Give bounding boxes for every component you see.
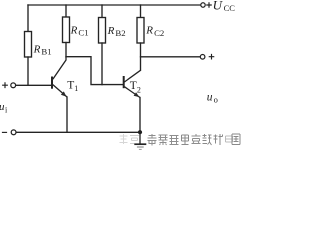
transistor T2 [124, 70, 141, 97]
label output plus [209, 54, 215, 60]
label RC1 [70, 24, 89, 37]
svg-text:o: o [214, 95, 218, 105]
svg-text:R: R [145, 25, 153, 37]
label RC2 [145, 25, 164, 38]
svg-text:i: i [5, 105, 8, 114]
label RB2 [107, 25, 126, 38]
svg-text:C2: C2 [154, 28, 164, 38]
label +Ucc [206, 0, 235, 13]
wire RB1 bottom lead [27, 57, 29, 85]
transistor T1 [52, 57, 67, 97]
wire RC2 top lead [140, 5, 142, 18]
label uo [207, 92, 218, 105]
svg-text:T: T [130, 80, 137, 92]
svg-text:R: R [33, 43, 41, 55]
wire RB2 top lead [101, 5, 103, 18]
wire output [141, 56, 201, 58]
ground [134, 132, 146, 149]
svg-text:C1: C1 [78, 28, 88, 38]
terminal input plus circle [11, 83, 16, 88]
label input minus [2, 131, 7, 133]
wire T2 emitter down [139, 98, 141, 133]
svg-text:2: 2 [137, 85, 141, 94]
wire RC1 bottom lead [65, 43, 67, 57]
watermark strip [120, 134, 241, 146]
svg-text:R: R [107, 25, 115, 37]
wire bottom rail [16, 131, 140, 133]
resistor RB2 [99, 18, 106, 44]
label T2 [130, 80, 141, 94]
label T1 [67, 80, 78, 94]
resistor RC1 [63, 17, 70, 43]
label RB1 [33, 43, 52, 56]
wire RB2 bottom lead [101, 43, 103, 85]
node junction dot emitter T2 [138, 130, 142, 134]
svg-text:R: R [70, 24, 78, 36]
resistor RC2 [137, 18, 144, 44]
svg-text:CC: CC [224, 3, 236, 13]
terminal output plus circle [200, 55, 205, 60]
svg-text:B1: B1 [41, 47, 51, 57]
wire jog RC1 to T2 base [66, 57, 123, 85]
wire top rail [28, 4, 201, 6]
svg-text:T: T [67, 80, 74, 92]
wire T1 emitter down [66, 97, 68, 132]
terminal +Ucc circle [201, 3, 205, 7]
wire RB1 top lead [27, 5, 29, 32]
label input plus [2, 82, 8, 88]
svg-text:1: 1 [74, 84, 78, 93]
terminal input minus circle [11, 130, 16, 135]
wire RC2 bottom lead [140, 43, 142, 70]
wire input base T1 [16, 84, 52, 86]
svg-text:u: u [207, 92, 213, 104]
resistor RB1 [25, 32, 32, 58]
wire RC1 top lead [65, 5, 67, 17]
svg-text:B2: B2 [115, 28, 125, 38]
svg-text:U: U [213, 0, 224, 13]
label ui [0, 101, 8, 114]
